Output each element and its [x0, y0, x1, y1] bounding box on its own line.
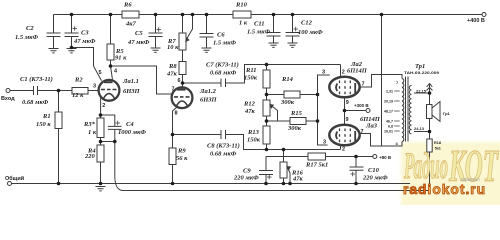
- labels transformer taps: [384, 90, 393, 134]
- wire R12 wiper: [270, 105, 278, 122]
- node rail R5: [109, 13, 113, 17]
- svg-text:ТАН-69-220-009: ТАН-69-220-009: [404, 70, 440, 75]
- node rail C12: [291, 13, 295, 17]
- svg-text:C12: C12: [301, 20, 313, 27]
- resistor R9: [169, 148, 176, 165]
- node R13 bottom: [265, 148, 269, 152]
- svg-text:C6: C6: [217, 32, 225, 39]
- wire C9 riser: [265, 157, 267, 171]
- node rail C9: [264, 182, 268, 186]
- svg-text:47 мкФ: 47 мкФ: [73, 38, 96, 45]
- capacitor C10: [350, 167, 364, 176]
- wire C3 lead from rail: [71, 15, 73, 34]
- wire feedback hop from C4 node: [115, 142, 123, 191]
- svg-text:+300 В: +300 В: [354, 103, 369, 108]
- svg-text:R3*: R3*: [83, 121, 96, 128]
- svg-text:+400 В: +400 В: [467, 18, 485, 24]
- watermark background panel: [401, 142, 500, 208]
- node rail C5: [154, 13, 158, 17]
- svg-text:6П14П: 6П14П: [347, 68, 368, 75]
- svg-text:1 к: 1 к: [239, 20, 248, 27]
- svg-text:Гр1: Гр1: [443, 111, 451, 116]
- node secondary bottom: [428, 130, 432, 134]
- capacitor C2: [47, 33, 61, 37]
- svg-text:20,19: 20,19: [384, 100, 393, 104]
- svg-text:7: 7: [172, 87, 175, 93]
- node R12 R13: [265, 119, 269, 123]
- resistor R13: [263, 126, 270, 144]
- svg-text:6Н3П: 6Н3П: [123, 88, 141, 95]
- ground C3: [67, 49, 77, 53]
- wire C3 to node: [71, 37, 73, 49]
- wire R5 bottom to anode node: [110, 60, 112, 66]
- svg-text:C9: C9: [243, 168, 251, 175]
- capacitor C8: [221, 130, 226, 139]
- wire secondary bottom tap: [414, 131, 430, 133]
- ground C5: [151, 48, 161, 52]
- svg-text:47к: 47к: [244, 108, 256, 115]
- svg-text:7: 7: [361, 129, 364, 135]
- wire R3 bottom junction line: [101, 138, 115, 146]
- wire R1 bottom lead: [58, 129, 60, 184]
- wire R12 R13 link: [266, 121, 268, 126]
- tube triode La1.2: [172, 87, 193, 108]
- wire R14 to grid riser: [300, 94, 318, 96]
- svg-text:4к7: 4к7: [125, 21, 137, 28]
- svg-text:R18: R18: [434, 141, 441, 145]
- node R11 R14: [265, 93, 269, 97]
- wire La2 screen chain to La3: [344, 98, 346, 125]
- potentiometer R16: [280, 162, 290, 178]
- svg-text:C11: C11: [254, 21, 264, 28]
- transformer Tr1 core: [406, 77, 409, 142]
- svg-text:1000 мкФ: 1000 мкФ: [118, 129, 146, 136]
- svg-text:radiokot.ru: radiokot.ru: [403, 182, 486, 197]
- wire R1 top lead: [58, 91, 60, 113]
- svg-text:Вход: Вход: [1, 96, 15, 102]
- node secondary top: [428, 91, 432, 95]
- capacitor C6: [200, 34, 214, 38]
- svg-text:300к: 300к: [280, 99, 295, 106]
- resistor R8: [179, 62, 186, 75]
- speaker: [427, 102, 441, 122]
- svg-text:56 к: 56 к: [176, 155, 188, 162]
- svg-text:3: 3: [323, 140, 326, 146]
- svg-text:7: 7: [362, 82, 365, 88]
- transformer Tr1 left taps: [394, 91, 400, 131]
- terminal common: [8, 182, 12, 186]
- wire tube2 cathode down: [173, 108, 177, 135]
- svg-text:47 мкФ: 47 мкФ: [127, 39, 150, 46]
- svg-text:+80 В: +80 В: [379, 155, 392, 160]
- wire tube1 cathode down: [100, 97, 102, 116]
- svg-text:6,8: 6,8: [388, 125, 393, 129]
- svg-text:1.5 мкФ: 1.5 мкФ: [15, 34, 38, 41]
- wire R7 to R8: [182, 50, 184, 62]
- svg-text:8: 8: [175, 111, 178, 117]
- svg-text:24,13: 24,13: [414, 126, 425, 131]
- wire node to R15: [267, 120, 291, 122]
- node C3 ground: [70, 46, 74, 50]
- svg-text:R8: R8: [168, 63, 177, 70]
- node grid riser R15: [316, 119, 320, 123]
- svg-text:300к: 300к: [287, 125, 302, 132]
- svg-text:1 к: 1 к: [88, 129, 97, 136]
- node rail R16 wiper: [288, 182, 292, 186]
- wire input C1 left: [10, 90, 33, 92]
- wire rail drop to transformer: [381, 15, 383, 147]
- wire C12 to ground: [292, 36, 294, 43]
- wire grid riser La2: [318, 75, 330, 121]
- wire speaker bottom lead: [429, 119, 431, 140]
- svg-text:100 мкФ: 100 мкФ: [298, 29, 323, 36]
- wire anode node to C7: [183, 82, 221, 84]
- svg-text:C10: C10: [368, 167, 380, 174]
- wire R11 bottom lead: [266, 88, 268, 95]
- node rail C11: [272, 13, 276, 17]
- wire R7 top lead: [182, 15, 184, 34]
- svg-text:2: 2: [342, 147, 345, 153]
- wire R18 bottom lead: [429, 152, 431, 191]
- resistor R6: [122, 11, 139, 18]
- resistor R4: [97, 145, 104, 162]
- wire R9 top lead: [172, 135, 174, 149]
- wire R11 R12 link: [266, 95, 268, 101]
- svg-text:R1: R1: [42, 113, 51, 120]
- svg-text:C5: C5: [135, 30, 143, 37]
- node tube1 cathode: [99, 113, 103, 117]
- wire arrow up at secondary: [427, 84, 433, 94]
- node rail R16: [282, 182, 286, 186]
- wire ground rail: [12, 183, 411, 185]
- svg-text:48,17: 48,17: [384, 110, 393, 114]
- svg-text:3: 3: [322, 70, 325, 76]
- capacitor C12: [286, 27, 300, 36]
- wire C5 to ground: [155, 37, 157, 48]
- node rail R7: [181, 13, 185, 17]
- svg-text:10,01: 10,01: [384, 130, 393, 134]
- resistor R10: [233, 11, 251, 18]
- terminal +400V: [482, 13, 486, 17]
- capacitor C5: [149, 27, 163, 36]
- svg-text:47к: 47к: [166, 71, 178, 78]
- wire R13 bottom lead: [266, 144, 268, 150]
- svg-text:C2: C2: [26, 25, 34, 32]
- tube triode La1.1: [99, 80, 120, 101]
- wire node to R14: [267, 94, 285, 96]
- node C1 R1: [57, 89, 61, 93]
- node cathode line C10: [354, 155, 358, 159]
- wire R16 wiper: [287, 167, 290, 184]
- wire C1 to R2: [38, 90, 73, 92]
- svg-text:C3: C3: [81, 30, 89, 37]
- svg-text:220: 220: [84, 153, 96, 160]
- wire C11 lead from rail: [273, 15, 275, 33]
- resistor R2: [72, 88, 88, 95]
- node R5 anode: [109, 64, 113, 68]
- svg-text:2,31: 2,31: [386, 90, 393, 94]
- wire C10 bottom: [355, 170, 357, 183]
- wire R15 to grid riser: [306, 120, 318, 122]
- wire cathode line: [266, 156, 373, 158]
- wire speaker top lead: [429, 93, 431, 105]
- svg-text:1.5 мкФ: 1.5 мкФ: [213, 40, 236, 47]
- resistor R17: [308, 153, 326, 160]
- tube pentode La2: [329, 77, 359, 98]
- terminal input: [6, 89, 10, 93]
- svg-text:5: 5: [99, 70, 102, 76]
- node tube2 anode: [181, 81, 185, 85]
- transformer Tr1 secondary winding: [409, 86, 411, 134]
- wire shield from C3 ground node to tube1 pin5: [72, 48, 102, 81]
- svg-text:6Н3П: 6Н3П: [200, 97, 218, 104]
- svg-text:46,7: 46,7: [386, 120, 393, 124]
- svg-text:10 к: 10 к: [167, 44, 179, 51]
- resistor R18: [427, 139, 432, 152]
- svg-text:150 к: 150 к: [36, 121, 51, 128]
- wire La3 anode to transformer bottom: [359, 134, 402, 147]
- svg-text:Ла1.1: Ла1.1: [122, 78, 139, 85]
- svg-text:R13: R13: [247, 129, 260, 136]
- potentiometer R12: [263, 100, 273, 116]
- svg-text:9: 9: [346, 100, 349, 106]
- svg-text:3: 3: [93, 84, 96, 90]
- wire R16 bottom: [283, 178, 285, 184]
- terminal +300V: [366, 109, 370, 113]
- wire R11 top lead: [266, 65, 268, 71]
- ground main: [96, 187, 106, 191]
- svg-text:0.68 мкФ: 0.68 мкФ: [210, 151, 237, 158]
- svg-text:220 мкФ: 220 мкФ: [233, 175, 259, 182]
- ground C12: [288, 43, 298, 47]
- wire C4 bottom: [114, 130, 116, 142]
- svg-text:R6: R6: [123, 2, 132, 9]
- wire La3 grid lead up: [340, 146, 342, 150]
- ground C6: [202, 48, 212, 52]
- wire R12 bottom link: [266, 116, 268, 121]
- svg-text:2: 2: [342, 70, 345, 76]
- wire feedback return line: [123, 190, 430, 192]
- wire R16 top riser: [283, 150, 285, 163]
- svg-text:150к: 150к: [244, 75, 258, 82]
- svg-text:Ла3: Ла3: [365, 123, 378, 130]
- resistor R11: [263, 70, 270, 88]
- terminal +80V: [373, 155, 377, 159]
- wire R2 to tube1 grid: [88, 90, 99, 92]
- potentiometer R7: [179, 33, 189, 50]
- wire grid riser La3: [318, 121, 328, 145]
- svg-text:47к: 47к: [292, 176, 304, 183]
- wire tube1 pin4 anode lead: [111, 66, 113, 81]
- wire La2 anode to transformer top: [360, 75, 403, 88]
- wire C12 lead from rail: [292, 15, 294, 33]
- svg-text:R9: R9: [177, 148, 186, 155]
- wire C7 to splitter top line: [226, 65, 341, 84]
- capacitor C3: [65, 26, 79, 36]
- wire top supply rail: [54, 14, 483, 16]
- wire R8 bottom to tube2 anode: [182, 74, 184, 88]
- wire cathode node to R3: [100, 115, 102, 118]
- svg-text:91 к: 91 к: [115, 55, 127, 62]
- wire C8 to splitter bottom line: [226, 135, 341, 150]
- transformer Tr1 primary winding: [402, 79, 404, 142]
- svg-text:2: 2: [102, 103, 105, 109]
- svg-text:Общий: Общий: [5, 175, 24, 182]
- wire C5 lead from rail: [155, 15, 157, 34]
- resistor R5: [107, 44, 114, 60]
- wire C6 lead from rail: [206, 15, 208, 34]
- wire C2 to ground: [53, 37, 55, 49]
- ground C11: [269, 43, 279, 47]
- svg-text:C7 (К73-11): C7 (К73-11): [206, 62, 239, 69]
- node grid riser R14: [316, 93, 320, 97]
- svg-text:220 мкФ: 220 мкФ: [362, 175, 388, 182]
- wire C2 lead from rail: [53, 15, 55, 34]
- node rail R1: [57, 182, 61, 186]
- svg-text:R15: R15: [290, 110, 303, 117]
- capacitor C7: [221, 79, 226, 88]
- svg-text:C4: C4: [126, 121, 134, 128]
- svg-text:R12: R12: [243, 101, 256, 108]
- svg-text:R10: R10: [235, 2, 248, 9]
- wire C6 to ground: [206, 37, 208, 48]
- svg-text:R14: R14: [281, 76, 294, 83]
- node R3 C4 right: [113, 140, 117, 144]
- node splitter top: [265, 63, 269, 67]
- svg-text:0.68 мкФ: 0.68 мкФ: [210, 70, 237, 77]
- ground C2: [49, 49, 59, 53]
- svg-text:Ла1.2: Ла1.2: [199, 88, 217, 95]
- node rail transformer: [380, 13, 384, 17]
- svg-text:6: 6: [178, 78, 181, 84]
- wire C11 to ground: [273, 36, 275, 43]
- wire C9 bottom: [265, 175, 267, 184]
- capacitor C1: [34, 86, 38, 95]
- svg-text:12 к: 12 к: [72, 92, 84, 99]
- wire anode node to tube2 grid: [111, 66, 172, 94]
- wire cathode node to C8: [173, 134, 221, 136]
- resistor R3: [97, 118, 104, 138]
- svg-text:Радио: Радио: [404, 146, 448, 187]
- node tube2 cathode R9: [171, 133, 175, 137]
- wire R5 top lead: [110, 15, 112, 45]
- node rail C10: [354, 182, 358, 186]
- node rail wiper: [191, 13, 195, 17]
- svg-text:R17 5к1: R17 5к1: [305, 162, 328, 169]
- node R3 C4 left: [99, 140, 103, 144]
- node R16 top: [282, 148, 286, 152]
- svg-text:0.68 мкФ: 0.68 мкФ: [22, 99, 49, 106]
- svg-text:22,15: 22,15: [416, 89, 427, 94]
- svg-text:R2: R2: [74, 77, 83, 84]
- node rail R9: [171, 182, 175, 186]
- wire cathode node to C4: [101, 115, 115, 126]
- wire R7 wiper from rail: [187, 15, 193, 39]
- capacitor C11: [267, 33, 281, 37]
- wire tube2 grid lead down to La2: [340, 65, 342, 78]
- node rail R4: [99, 182, 103, 186]
- wire C10 riser: [355, 157, 357, 167]
- capacitor C4: [108, 121, 122, 130]
- svg-text:R11: R11: [245, 67, 256, 74]
- wire R9 bottom lead: [172, 165, 174, 184]
- wire R4 bottom to ground rail: [100, 162, 102, 184]
- resistor R14: [284, 91, 300, 98]
- wire +300V test branch: [345, 110, 366, 112]
- capacitor C9: [259, 171, 273, 180]
- node screens: [343, 109, 347, 113]
- resistor R15: [290, 118, 306, 125]
- node rail C6: [205, 13, 209, 17]
- svg-text:1.5 мкФ: 1.5 мкФ: [247, 29, 270, 36]
- svg-text:C1 (К73-11): C1 (К73-11): [20, 76, 53, 83]
- svg-text:150к: 150к: [247, 137, 261, 144]
- tube pentode La3: [329, 125, 359, 146]
- svg-text:C8 (К73-11): C8 (К73-11): [207, 143, 240, 150]
- svg-text:Тр1: Тр1: [415, 63, 425, 70]
- node rail C3: [70, 13, 74, 17]
- resistor R1: [55, 112, 62, 129]
- wire secondary top tap to speaker: [414, 92, 430, 94]
- svg-text:9: 9: [346, 117, 349, 123]
